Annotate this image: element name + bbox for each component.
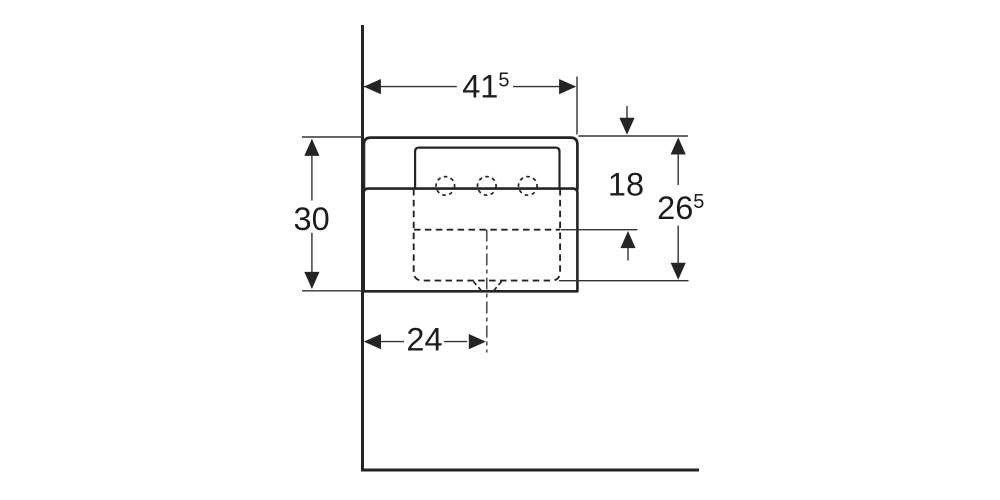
dim 26.5: down arrowhead [671, 263, 686, 280]
dim 30: extension line bottom [302, 290, 363, 292]
svg-text:5: 5 [693, 191, 704, 213]
dim 24: left arrowhead [364, 334, 381, 349]
svg-text:18: 18 [608, 166, 644, 202]
dim 18: top down arrow tail [626, 106, 628, 120]
dim 41.5: right arrowhead [559, 79, 576, 94]
dim 30: extension line top [302, 136, 363, 138]
dim 24: dimension line [365, 341, 404, 343]
drain funnel left side (dashed) [474, 282, 482, 291]
dim 41.5: dimension line [364, 86, 457, 88]
hidden shelf line (dashed) [414, 229, 560, 231]
washbasin outer profile [364, 138, 578, 190]
centerline (dash-dot) [486, 230, 488, 353]
dim 26.5: down arrow tail [677, 226, 679, 264]
dim 41.5: extension line right [576, 77, 578, 135]
hidden basin body (dashed) [414, 189, 560, 281]
tap hole circle middle (dashed) [478, 177, 497, 196]
dim 18: top down arrowhead [619, 118, 634, 135]
dim 26.5: up arrowhead [671, 137, 686, 154]
drain funnel right side (dashed) [494, 282, 502, 291]
svg-text:30: 30 [294, 201, 330, 237]
dim 30: up arrowhead [304, 139, 319, 156]
svg-text:5: 5 [498, 70, 509, 92]
dim 18: extension line bottom [561, 229, 638, 231]
svg-text:24: 24 [406, 322, 442, 358]
floor [361, 469, 699, 472]
svg-text:41: 41 [462, 69, 498, 105]
basin inner rim [415, 148, 559, 188]
dim 26.5: extension line bottom [559, 280, 689, 282]
tap hole circle left (dashed) [436, 177, 455, 196]
dim 30: down arrowhead [304, 272, 319, 289]
dim 18: bottom up arrow tail [627, 248, 629, 261]
dim 18: extension line top right [579, 135, 689, 137]
cabinet body outline [364, 189, 578, 292]
dim 18: bottom up arrowhead [620, 231, 635, 248]
tap hole circle right (dashed) [519, 177, 538, 196]
dim 30: dimension line [311, 140, 313, 288]
svg-text:26: 26 [657, 190, 693, 226]
dim 41.5: left arrowhead [364, 79, 381, 94]
dim 26.5: up arrow tail [677, 154, 679, 185]
dim 24: right arrowhead [469, 334, 486, 349]
wall [361, 25, 364, 471]
dim 30: label [290, 201, 334, 233]
